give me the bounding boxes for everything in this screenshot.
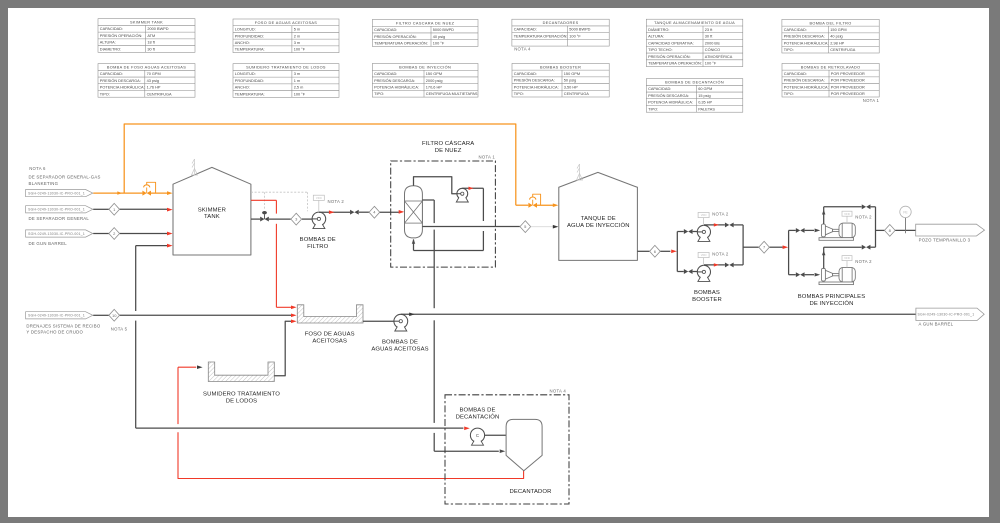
valve main pump A suction [796, 228, 805, 233]
svg-text:SGH-0249-13030-IC-PRO-001_1: SGH-0249-13030-IC-PRO-001_1 [28, 191, 85, 195]
svg-text:SGH-0249-13030-IC-PRO-001_1: SGH-0249-13030-IC-PRO-001_1 [28, 232, 85, 236]
svg-text:5000 BWPD: 5000 BWPD [433, 28, 454, 32]
svg-text:SGH-0249-13030-IC-PRO-001_1: SGH-0249-13030-IC-PRO-001_1 [28, 314, 85, 318]
svg-text:TEMPERATURA OPERACIÓN:: TEMPERATURA OPERACIÓN: [374, 40, 428, 45]
wire skimmer outlet to filter pump [251, 218, 260, 220]
vessel nutshell filter [405, 186, 423, 238]
svg-text:POTENCIA HIDRÁULICA:: POTENCIA HIDRÁULICA: [648, 101, 693, 105]
wire main pumps suction manifold [788, 230, 790, 274]
svg-text:DE SEPARADOR GENERAL-GAS: DE SEPARADOR GENERAL-GAS [29, 175, 101, 180]
wire backwash pump discharge loop [462, 187, 483, 189]
wire booster B discharge [704, 264, 725, 266]
svg-text:SKIMMER TANK: SKIMMER TANK [130, 21, 163, 25]
svg-text:PRESIÓN OPERACIÓN:: PRESIÓN OPERACIÓN: [100, 33, 143, 38]
svg-text:TANQUE DE: TANQUE DE [581, 216, 616, 222]
vent symbol on injection tank roof [577, 164, 583, 180]
svg-text:CAPACIDAD:: CAPACIDAD: [100, 72, 123, 76]
svg-text:TEMPERATURA OPERACIÓN:: TEMPERATURA OPERACIÓN: [648, 61, 702, 66]
svg-text:PALETAS: PALETAS [698, 107, 715, 111]
svg-text:TEMPERATURA OPERACIÓN:: TEMPERATURA OPERACIÓN: [514, 33, 568, 38]
table BOMBA DE FOSO AGUAS ACEITOSAS [98, 64, 195, 98]
svg-text:SGH-0249-13030-IC-PRO-001_1: SGH-0249-13030-IC-PRO-001_1 [918, 313, 975, 317]
vfd box filtro pump [318, 200, 320, 212]
table TANQUE ALMACENAMIENTO DE AGUA [646, 19, 743, 66]
node stream 6 [650, 245, 661, 257]
svg-text:2,5 m: 2,5 m [294, 86, 304, 90]
svg-text:SUMIDERO TRATAMIENTO: SUMIDERO TRATAMIENTO [203, 392, 280, 398]
valve main pump A discharge [862, 204, 871, 209]
wire booster discharge manifold [742, 225, 744, 265]
wire from separador general to skimmer [93, 208, 109, 210]
vfd box booster B [703, 258, 705, 266]
pump main injection B [819, 267, 855, 284]
vent symbol on skimmer roof [192, 159, 198, 175]
svg-text:ATMOSFÉRICA: ATMOSFÉRICA [705, 54, 733, 59]
svg-text:POR PROVEEDOR: POR PROVEEDOR [831, 92, 865, 96]
svg-text:DE NUEZ: DE NUEZ [435, 148, 462, 154]
svg-text:SUMIDERO TRATAMIENTO DE LOD: SUMIDERO TRATAMIENTO DE LODOS [246, 66, 326, 70]
wire filter drain down to decantador [422, 199, 434, 201]
svg-text:BOMBAS DE: BOMBAS DE [382, 340, 418, 346]
svg-text:50 psig: 50 psig [564, 79, 576, 83]
valve booster A suction [684, 229, 693, 234]
pump booster B [697, 265, 710, 278]
wire orange into injection tank [537, 204, 554, 206]
svg-text:CAPACIDAD:: CAPACIDAD: [514, 72, 537, 76]
svg-text:BOMBA DE FOSO AGUAS ACEITOSAS: BOMBA DE FOSO AGUAS ACEITOSAS [107, 66, 186, 70]
wire main pumps discharge manifold [875, 207, 877, 247]
table BOMBAS DE RETROLAVADO [782, 63, 879, 97]
pump bombas de aguas aceitosas [394, 314, 408, 328]
svg-text:LONGITUD:: LONGITUD: [235, 28, 256, 32]
svg-text:PRESIÓN DESCARGA:: PRESIÓN DESCARGA: [784, 78, 825, 83]
wire from gun barrel to skimmer [93, 233, 109, 235]
table FILTRO CASCARA DE NUEZ [372, 20, 478, 47]
svg-text:BOOSTER: BOOSTER [692, 297, 722, 303]
svg-text:DECANTADOR: DECANTADOR [510, 489, 552, 495]
svg-text:FILTRO CÁSCARA: FILTRO CÁSCARA [422, 140, 474, 147]
table BOMBAS DE DECANTACION [646, 79, 743, 113]
tank skimmer [173, 167, 251, 255]
vfd box main pump A [846, 216, 848, 223]
svg-text:ACEITOSAS: ACEITOSAS [312, 338, 347, 344]
svg-text:AGUAS ACEITOSAS: AGUAS ACEITOSAS [371, 347, 428, 353]
svg-text:CAPACIDAD:: CAPACIDAD: [514, 28, 537, 32]
svg-text:BOMBA DEL FILTRO: BOMBA DEL FILTRO [809, 21, 851, 25]
svg-text:CENTRIFUGA: CENTRIFUGA [830, 48, 855, 52]
svg-text:1,76 HP: 1,76 HP [147, 86, 161, 90]
svg-text:LONGITUD:: LONGITUD: [235, 72, 256, 76]
svg-text:AGUA DE INYECCIÓN: AGUA DE INYECCIÓN [567, 222, 630, 229]
flag a gun barrel [916, 308, 984, 320]
svg-text:PRESIÓN DESCARGA:: PRESIÓN DESCARGA: [514, 78, 555, 83]
svg-text:NOTA 1: NOTA 1 [863, 98, 880, 103]
svg-text:TIPO:: TIPO: [514, 92, 524, 96]
svg-text:3 m: 3 m [294, 41, 300, 45]
svg-text:NOTA 5: NOTA 5 [111, 326, 128, 331]
svg-text:VFD: VFD [701, 213, 707, 217]
flag drenajes line tag [26, 312, 93, 319]
node stream 5 [520, 221, 531, 233]
svg-text:CAPACIDAD:: CAPACIDAD: [374, 28, 397, 32]
svg-text:3,50 HP: 3,50 HP [564, 85, 578, 89]
wire booster A discharge [704, 224, 725, 226]
wire branch from drains up into skimmer and down to decant pump [136, 245, 168, 247]
pump booster A [697, 225, 710, 238]
svg-text:POTENCIA HIDRÁULICA:: POTENCIA HIDRÁULICA: [514, 85, 559, 89]
valve manual at skimmer outlet [260, 217, 269, 222]
table BOMBAS BOOSTER [512, 63, 609, 97]
svg-text:ALTURA:: ALTURA: [100, 41, 116, 45]
tank agua de inyeccion [559, 172, 638, 260]
svg-text:POTENCIA HIDRÁULICA:: POTENCIA HIDRÁULICA: [784, 85, 829, 89]
svg-text:FILTRO: FILTRO [307, 244, 329, 250]
wire foso outlet to pump [363, 320, 400, 322]
svg-text:NOTA 2: NOTA 2 [855, 214, 872, 219]
table BOMBAS DE INYECCION [372, 64, 478, 98]
svg-text:TIPO:: TIPO: [784, 92, 794, 96]
svg-text:100 °F: 100 °F [294, 48, 306, 52]
flag gun barrel line tag [26, 230, 93, 237]
svg-text:TIPO:: TIPO: [374, 92, 384, 96]
svg-text:CENTRIFUGA MULTIETAPAS: CENTRIFUGA MULTIETAPAS [426, 92, 478, 96]
svg-text:30 ft: 30 ft [147, 47, 155, 51]
svg-text:BOMBAS DE DECANTACIÓN: BOMBAS DE DECANTACIÓN [665, 80, 724, 85]
svg-text:DE INYECCIÓN: DE INYECCIÓN [810, 300, 854, 307]
node stream 10 [109, 309, 120, 321]
valve booster B discharge [725, 262, 734, 267]
svg-text:TANK: TANK [204, 214, 220, 220]
table DECANTADORES [512, 19, 609, 46]
wire decant pump discharge to decantador [485, 434, 507, 436]
svg-text:PRESIÓN DESCARGA:: PRESIÓN DESCARGA: [100, 78, 141, 83]
svg-text:NOTA 4: NOTA 4 [550, 389, 567, 394]
svg-text:2000 BWPD: 2000 BWPD [147, 27, 168, 31]
svg-text:C: C [476, 433, 479, 438]
svg-text:PROFUNDIDAD:: PROFUNDIDAD: [235, 79, 264, 83]
svg-text:2 m: 2 m [294, 34, 300, 38]
wire filter outlet to injection tank [422, 226, 520, 228]
node stream 4 [369, 206, 380, 218]
wire orange into skimmer tank [151, 192, 167, 194]
svg-text:CAPACIDAD:: CAPACIDAD: [648, 87, 671, 91]
svg-text:CAPACIDAD:: CAPACIDAD: [374, 72, 397, 76]
svg-text:NOTA 4: NOTA 4 [514, 47, 531, 52]
regulator PCV at injection tank [516, 204, 529, 206]
svg-text:BOMBAS: BOMBAS [694, 290, 720, 296]
svg-text:DIÁMETRO:: DIÁMETRO: [648, 28, 669, 32]
svg-text:100 °F: 100 °F [569, 34, 581, 38]
svg-text:TIPO:: TIPO: [784, 48, 794, 52]
flag separador general line tag [26, 206, 93, 213]
svg-text:0,35 HP: 0,35 HP [698, 101, 712, 105]
svg-text:DECANTACIÓN: DECANTACIÓN [456, 414, 500, 421]
svg-text:ANCHO:: ANCHO: [235, 41, 250, 45]
svg-text:NOTA 1: NOTA 1 [479, 155, 496, 160]
svg-text:ALTURA:: ALTURA: [648, 35, 664, 39]
svg-text:NOTA 2: NOTA 2 [328, 199, 345, 204]
svg-text:DE GUN BARREL: DE GUN BARREL [29, 241, 68, 246]
vessel decantador [506, 419, 542, 470]
svg-text:BLANKETING: BLANKETING [29, 181, 59, 186]
wire sumidero outlet up to foso [274, 321, 291, 376]
wire drains header to foso [93, 314, 109, 316]
svg-text:TEMPERATURA:: TEMPERATURA: [235, 48, 265, 52]
svg-text:VFD: VFD [844, 212, 850, 216]
pump backwash [457, 188, 468, 199]
node stream 7 [759, 241, 770, 253]
svg-text:CAPACIDAD OPERATIVA:: CAPACIDAD OPERATIVA: [648, 41, 694, 45]
instrument flow element FE [905, 218, 907, 234]
node stream 2 [109, 228, 120, 240]
svg-text:100 °F: 100 °F [294, 92, 306, 96]
svg-text:DECANTADORES: DECANTADORES [543, 21, 579, 25]
svg-text:POZO TEMPRANILLO 3: POZO TEMPRANILLO 3 [919, 237, 971, 242]
svg-text:DRENAJES SISTEMA DE RECIBO: DRENAJES SISTEMA DE RECIBO [26, 323, 100, 328]
svg-text:150 GPM: 150 GPM [564, 72, 580, 76]
svg-text:POTENCIA HIDRÁULICA:: POTENCIA HIDRÁULICA: [100, 86, 145, 90]
svg-text:23 ft: 23 ft [705, 28, 713, 32]
wire filtro pump discharge to filter [319, 211, 350, 213]
flag gas blanketing line tag [26, 190, 93, 197]
svg-text:BOMBAS DE: BOMBAS DE [459, 408, 495, 414]
node stream 1 [109, 203, 120, 215]
table FOSO DE AGUAS ACEITOSAS [233, 19, 339, 53]
svg-text:POR PROVEEDOR: POR PROVEEDOR [831, 85, 865, 89]
pump main injection A [819, 223, 855, 240]
svg-text:5000 BWPD: 5000 BWPD [569, 28, 590, 32]
svg-text:CAPACIDAD:: CAPACIDAD: [784, 72, 807, 76]
svg-text:A GUN BARREL: A GUN BARREL [919, 322, 954, 327]
svg-text:2,98 HP: 2,98 HP [830, 41, 844, 45]
svg-text:150 GPM: 150 GPM [830, 28, 846, 32]
svg-text:TANQUE ALMACENAMIENTO DE AG: TANQUE ALMACENAMIENTO DE AGUA [654, 21, 735, 25]
wire red sludge decantador to sumidero [178, 432, 524, 478]
vfd box booster A [703, 218, 705, 226]
svg-text:PRESIÓN DESCARGA:: PRESIÓN DESCARGA: [648, 93, 689, 98]
svg-text:60 GPM: 60 GPM [698, 87, 712, 91]
svg-text:ANCHO:: ANCHO: [235, 86, 250, 90]
valve main pump B discharge [862, 245, 871, 250]
valve booster A discharge [725, 222, 734, 227]
svg-text:DE SEPARADOR GENERAL: DE SEPARADOR GENERAL [29, 216, 90, 221]
valve main pump B suction [796, 272, 805, 277]
flag pozo tempranillo 3 [916, 224, 985, 236]
svg-text:NOTA 2: NOTA 2 [712, 212, 729, 217]
wire filter backwash top loop [414, 177, 458, 194]
svg-text:40 psig: 40 psig [830, 35, 842, 39]
svg-text:CENTRIFUGA: CENTRIFUGA [147, 92, 172, 96]
svg-text:18 ft: 18 ft [147, 41, 155, 45]
svg-text:PRESIÓN DESCARGA:: PRESIÓN DESCARGA: [784, 34, 825, 39]
pump bombas de decantacion [470, 428, 484, 442]
regulator PCV at skimmer inlet [142, 191, 151, 196]
svg-text:SKIMMER: SKIMMER [198, 207, 226, 213]
svg-text:SGH-0249-13030-IC-PRO-001_1: SGH-0249-13030-IC-PRO-001_1 [28, 208, 85, 212]
svg-text:PRESIÓN OPERACIÓN:: PRESIÓN OPERACIÓN: [648, 54, 691, 59]
svg-text:TEMPERATURA:: TEMPERATURA: [235, 92, 265, 96]
svg-text:1 m: 1 m [294, 79, 300, 83]
wire orange gas blanketing header [124, 124, 516, 205]
svg-text:FE: FE [903, 210, 908, 214]
svg-text:100 °F: 100 °F [433, 41, 445, 45]
svg-text:BOMBAS PRINCIPALES: BOMBAS PRINCIPALES [798, 294, 866, 300]
svg-text:TIPO:: TIPO: [100, 92, 110, 96]
svg-text:BOMBAS DE INYECCIÓN: BOMBAS DE INYECCIÓN [399, 64, 451, 69]
pump bombas de filtro [312, 212, 326, 226]
svg-text:CENTRIFUGA: CENTRIFUGA [564, 92, 589, 96]
table BOMBA DEL FILTRO [782, 19, 879, 53]
svg-text:150 GPM: 150 GPM [426, 72, 442, 76]
wire main pump B discharge riser [823, 247, 825, 268]
svg-text:NOTA 2: NOTA 2 [712, 252, 729, 257]
svg-text:VFD: VFD [844, 256, 850, 260]
svg-text:POR PROVEEDOR: POR PROVEEDOR [831, 72, 865, 76]
svg-text:PRESIÓN DESCARGA:: PRESIÓN DESCARGA: [374, 78, 415, 83]
svg-text:DE LODOS: DE LODOS [226, 399, 257, 405]
svg-text:VFD: VFD [701, 253, 707, 257]
svg-text:TIPO:: TIPO: [648, 107, 658, 111]
svg-text:40 psig: 40 psig [433, 35, 445, 39]
svg-text:BOMBAS DE: BOMBAS DE [300, 237, 336, 243]
svg-text:3 m: 3 m [294, 72, 300, 76]
basin sumidero tratamiento de lodos [208, 362, 274, 382]
dashed package boundary decantador NOTA 4 [445, 395, 569, 504]
svg-text:43 psig: 43 psig [147, 79, 159, 83]
svg-text:2000 psig: 2000 psig [426, 79, 443, 83]
vfd box main pump B [846, 261, 848, 268]
wire main pump A discharge riser [823, 207, 825, 225]
svg-text:CAPACIDAD:: CAPACIDAD: [784, 28, 807, 32]
svg-text:TIPO TECHO:: TIPO TECHO: [648, 48, 673, 52]
table SUMIDERO TRATAMIENTO DE LODOS [233, 64, 339, 98]
svg-text:BOMBAS BOOSTER: BOMBAS BOOSTER [540, 65, 581, 69]
svg-text:70 GPM: 70 GPM [147, 72, 161, 76]
svg-text:Y DESPACHO DE CRUDO: Y DESPACHO DE CRUDO [26, 330, 83, 335]
svg-text:ATM: ATM [147, 34, 155, 38]
wire produced water line to gun barrel [401, 313, 916, 315]
svg-text:NOTA 6: NOTA 6 [29, 166, 46, 171]
node stream 3 [291, 213, 302, 225]
svg-text:170,6 HP: 170,6 HP [426, 85, 442, 89]
svg-text:DIAMETRO:: DIAMETRO: [100, 47, 121, 51]
wire injection tank outlet to boosters [637, 250, 649, 252]
svg-text:FOSO DE AGUAS: FOSO DE AGUAS [305, 332, 355, 338]
svg-text:POTENCIA HIDRÁULICA:: POTENCIA HIDRÁULICA: [784, 41, 829, 45]
svg-text:FOSO DE AGUAS ACEITOSAS: FOSO DE AGUAS ACEITOSAS [255, 21, 318, 25]
valve filtro discharge [350, 210, 359, 215]
svg-text:2000 Bls: 2000 Bls [705, 41, 720, 45]
dashed package boundary filtro cascara de nuez [391, 161, 496, 267]
node stream 8 [884, 225, 895, 237]
svg-text:PRESIÓN OPERACIÓN:: PRESIÓN OPERACIÓN: [374, 34, 417, 39]
svg-text:10: 10 [112, 313, 117, 318]
svg-text:POR PROVEEDOR: POR PROVEEDOR [831, 79, 865, 83]
svg-text:15 psig: 15 psig [698, 94, 710, 98]
svg-text:100 °F: 100 °F [705, 62, 717, 66]
svg-text:NOTA 2: NOTA 2 [855, 259, 872, 264]
svg-text:CAPACIDAD:: CAPACIDAD: [100, 27, 123, 31]
svg-text:PROFUNDIDAD:: PROFUNDIDAD: [235, 34, 264, 38]
table SKIMMER TANK [98, 19, 195, 53]
svg-text:VFD: VFD [316, 196, 322, 200]
wire orange from flag to skimmer regulator [93, 192, 142, 194]
svg-text:CÓNICO: CÓNICO [705, 47, 720, 52]
svg-text:30 ft: 30 ft [705, 35, 713, 39]
svg-text:5 m: 5 m [294, 28, 300, 32]
basin foso de aguas aceitosas [297, 305, 363, 323]
wire dashed level signal from skimmer [251, 191, 308, 193]
svg-text:POTENCIA HIDRÁULICA:: POTENCIA HIDRÁULICA: [374, 85, 419, 89]
svg-text:BOMBAS DE RETROLAVADO: BOMBAS DE RETROLAVADO [801, 65, 861, 69]
valve booster B suction [684, 269, 693, 274]
svg-text:FILTRO CASCARA DE NUEZ: FILTRO CASCARA DE NUEZ [396, 21, 455, 25]
wire red skim line skimmer to foso [251, 199, 276, 201]
wire booster suction manifold [676, 232, 678, 272]
